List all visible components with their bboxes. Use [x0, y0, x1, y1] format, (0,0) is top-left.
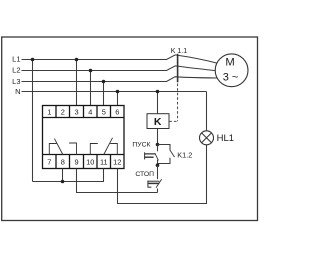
relay bottom terminal row line: [43, 154, 125, 156]
motor M1 circle: [215, 54, 248, 87]
node junction dot start top: [156, 143, 160, 147]
lamp HL1: [200, 131, 214, 145]
svg-text:K1.2: K1.2: [177, 151, 192, 160]
svg-text:3 ~: 3 ~: [223, 71, 239, 83]
internal contact fixed hook pin12: [110, 144, 117, 155]
svg-text:7: 7: [47, 157, 51, 166]
terminal separators top row: [56, 106, 111, 118]
node junction dot terminal 8 feed: [61, 180, 65, 184]
svg-text:11: 11: [100, 157, 108, 166]
internal contact fixed hook pin9: [69, 143, 76, 155]
wire L1 tap to terminal 3: [76, 60, 78, 106]
internal contact fixed hook pin10: [90, 144, 98, 155]
node junction dot L1 left tap: [31, 58, 35, 62]
internal contact blade pin11: [104, 138, 113, 155]
contactor K1.1 bar: [177, 54, 179, 83]
wire L3 tap to terminal 5: [103, 82, 105, 106]
contact K1.2 self-hold branch: [158, 145, 171, 151]
relay top terminal row line: [43, 117, 125, 119]
wire lamp to N line: [206, 92, 208, 131]
wire N tap to terminal 6: [117, 92, 119, 106]
button STOP normally-closed contact: [157, 165, 159, 179]
contactor coil K box: [147, 114, 169, 129]
wire coil K to start node: [157, 129, 159, 145]
node junction dot N terminal 6: [116, 90, 120, 94]
wire L2 tap to terminal 4: [90, 71, 92, 106]
svg-text:L2: L2: [12, 66, 20, 75]
border frame: [2, 37, 258, 221]
wire terminal 8 drop: [62, 169, 64, 182]
internal contact fixed hook pin7: [49, 144, 56, 155]
svg-text:K 1.1: K 1.1: [171, 48, 187, 55]
relay module body: [43, 106, 125, 169]
svg-text:K: K: [154, 116, 162, 128]
svg-text:2: 2: [61, 108, 65, 117]
node junction dot L1 terminal 3: [75, 58, 79, 62]
svg-text:9: 9: [74, 157, 78, 166]
svg-text:M: M: [225, 56, 234, 68]
svg-text:N: N: [15, 87, 20, 96]
svg-text:L3: L3: [12, 77, 20, 86]
wire terminal 12 to lamp: [118, 145, 207, 204]
svg-text:10: 10: [86, 157, 94, 166]
terminal separators bottom row: [56, 155, 111, 169]
svg-text:СТОП: СТОП: [135, 171, 154, 178]
wire L3 phase line to contact and motor: [22, 77, 217, 82]
internal contact blade pin8: [54, 139, 62, 155]
svg-text:8: 8: [61, 157, 65, 166]
svg-text:1: 1: [47, 108, 51, 117]
wire stop button to terminal 9: [77, 169, 158, 193]
wire N line to lamp branch: [22, 91, 207, 93]
svg-text:ПУСК: ПУСК: [132, 142, 150, 149]
node junction dot L2 terminal 4: [89, 69, 93, 73]
svg-text:4: 4: [88, 108, 92, 117]
node junction dot N coil: [156, 90, 160, 94]
svg-text:6: 6: [115, 108, 119, 117]
contactor K1.1 mechanical dashed link: [169, 84, 177, 122]
wire L1 feed to terminals 8 and 11: [33, 169, 104, 182]
node junction dot start bottom: [156, 163, 160, 167]
svg-text:3: 3: [74, 108, 78, 117]
wire L1 phase line to contact and motor: [22, 55, 218, 63]
wire L1 tap down left side: [32, 60, 34, 182]
button PUSK normally-open contact: [157, 145, 159, 152]
svg-text:5: 5: [102, 108, 106, 117]
svg-text:HL1: HL1: [217, 133, 234, 144]
wire N to contactor coil: [157, 92, 159, 114]
node junction dot L3 terminal 5: [102, 80, 106, 84]
wire L2 phase line to contact and motor: [22, 66, 216, 71]
svg-text:L1: L1: [12, 55, 20, 64]
svg-text:12: 12: [113, 157, 121, 166]
